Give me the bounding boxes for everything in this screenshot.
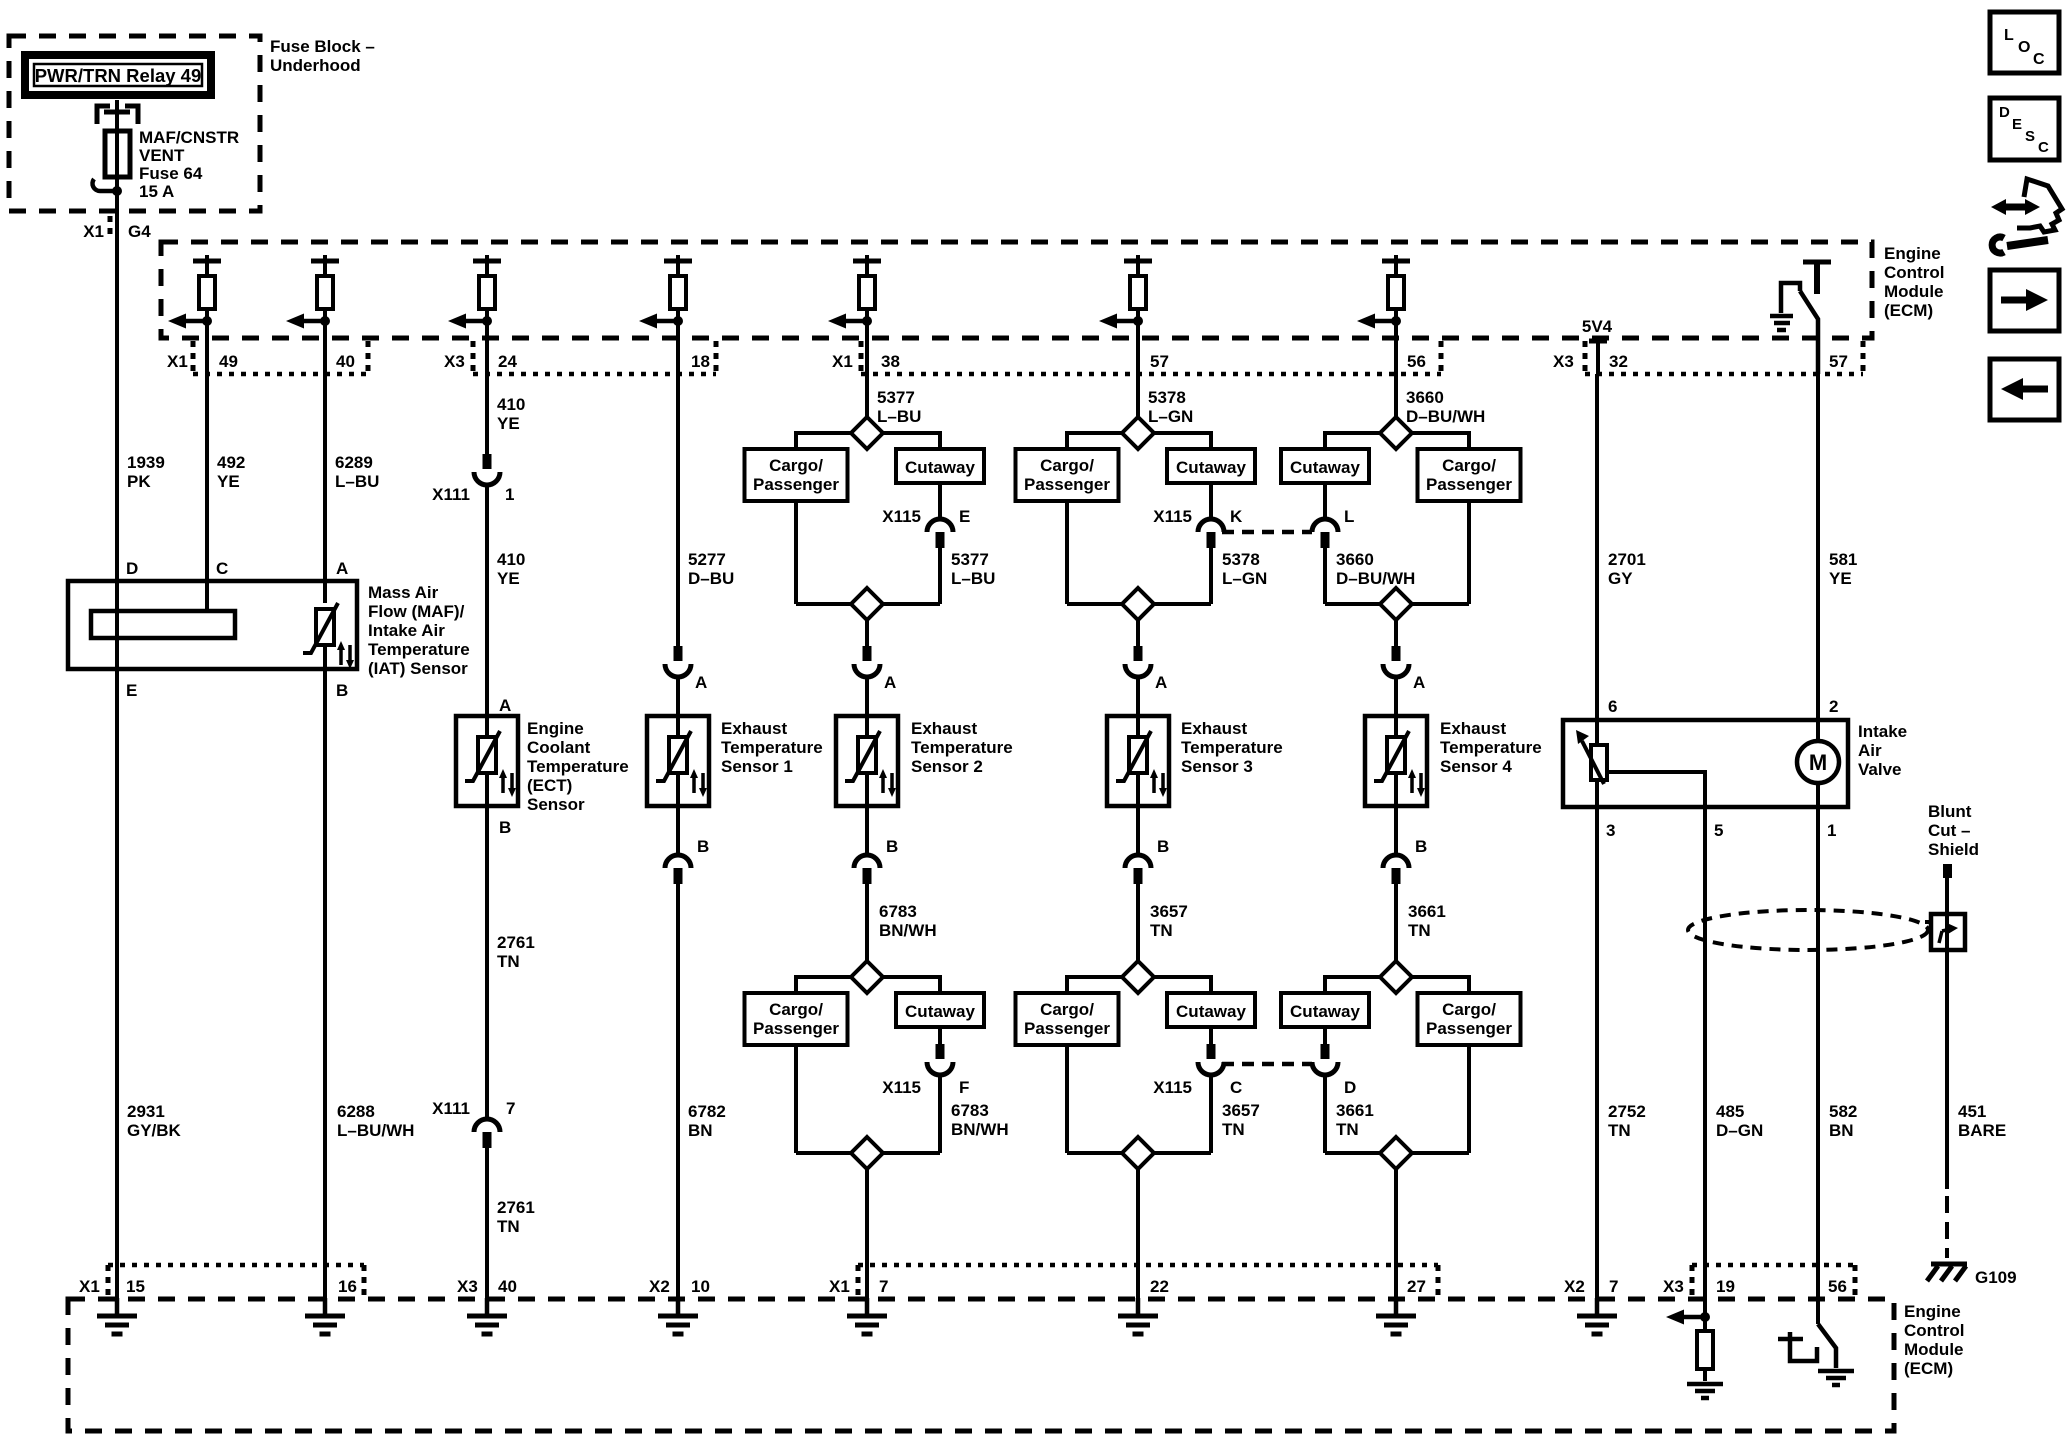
connector strip X3 32 57	[1553, 341, 1863, 374]
svg-text:7: 7	[879, 1277, 888, 1296]
svg-text:G4: G4	[128, 222, 151, 241]
splice diamond 5377 L-BU bottom	[796, 588, 940, 620]
svg-text:Temperature: Temperature	[527, 757, 629, 776]
svg-text:L–GN: L–GN	[1222, 569, 1267, 588]
svg-text:Cutaway: Cutaway	[1290, 1002, 1360, 1021]
wire 6288 L-BU/WH MAF B to ECM 16	[325, 669, 414, 1299]
wire 3657 TN sensor3 B down	[1138, 884, 1188, 961]
shield dashed ellipse	[1688, 910, 1928, 950]
svg-text:2: 2	[1829, 697, 1838, 716]
svg-text:581: 581	[1829, 550, 1857, 569]
wire to Cutaway branch	[1325, 977, 1380, 993]
ground ECM pin 16	[305, 1298, 345, 1334]
svg-text:Engine: Engine	[527, 719, 584, 738]
svg-text:X1: X1	[829, 1277, 850, 1296]
wire 6783 BN/WH below X115	[940, 1075, 1009, 1153]
svg-text:A: A	[884, 673, 896, 692]
svg-text:485: 485	[1716, 1102, 1744, 1121]
svg-text:Sensor 3: Sensor 3	[1181, 757, 1253, 776]
svg-text:Underhood: Underhood	[270, 56, 361, 75]
svg-text:BN: BN	[1829, 1121, 1854, 1140]
svg-text:L: L	[1344, 507, 1354, 526]
wire 3661 TN below X115	[1325, 1075, 1374, 1153]
svg-text:1: 1	[505, 485, 514, 504]
MAF/IAT sensor box	[68, 581, 357, 669]
connector sensor3 pin A	[1125, 646, 1167, 692]
box Cutaway	[1281, 449, 1369, 483]
wire to Cargo/Passenger branch	[1412, 433, 1469, 449]
svg-text:X111: X111	[432, 485, 470, 504]
svg-text:X115: X115	[882, 1078, 921, 1097]
svg-text:PWR/TRN Relay 49: PWR/TRN Relay 49	[35, 65, 202, 86]
blunt cut terminal bar	[1943, 864, 1952, 878]
svg-text:451: 451	[1958, 1102, 1986, 1121]
intake air valve box	[1563, 720, 1848, 807]
svg-text:Sensor 1: Sensor 1	[721, 757, 793, 776]
wire to Cargo/Passenger branch	[1412, 977, 1469, 993]
arrow ECM pin 24	[448, 314, 492, 329]
connector strip X1 15 16	[79, 1265, 364, 1299]
wire Cargo/Passenger branch down	[1467, 501, 1471, 604]
connector sensor4 pin B	[1383, 806, 1427, 884]
svg-text:Fuse Block –: Fuse Block –	[270, 37, 375, 56]
box Cargo/Passenger	[1016, 449, 1119, 501]
svg-text:Cutaway: Cutaway	[1290, 458, 1360, 477]
svg-text:X1: X1	[832, 352, 853, 371]
svg-text:TN: TN	[497, 1217, 520, 1236]
svg-text:Module: Module	[1884, 282, 1944, 301]
splice diamond 5378 L-GN top	[1122, 417, 1154, 449]
label Engine Control Module (ECM) bottom	[1904, 1302, 1964, 1378]
svg-text:K: K	[1230, 507, 1243, 526]
wire 3657 TN below X115	[1211, 1075, 1260, 1153]
wire Cargo/Passenger branch down	[794, 501, 798, 604]
svg-text:YE: YE	[497, 569, 520, 588]
svg-text:E: E	[126, 681, 137, 700]
svg-text:Passenger: Passenger	[753, 1019, 839, 1038]
svg-text:38: 38	[881, 352, 900, 371]
wire 3661 TN sensor4 B down	[1396, 884, 1446, 961]
wire 451 BARE upper	[1945, 878, 1949, 1189]
svg-text:5377: 5377	[951, 550, 989, 569]
splice diamond 3660 D-BU/WH bottom	[1325, 588, 1469, 620]
label Exhaust Temperature Sensor 4	[1440, 719, 1542, 776]
icon right arrow box	[1990, 270, 2059, 331]
svg-text:TN: TN	[497, 952, 520, 971]
svg-text:D–BU/WH: D–BU/WH	[1336, 569, 1415, 588]
connector X1 pin G4 labels	[83, 216, 151, 241]
svg-text:X115: X115	[1153, 507, 1192, 526]
svg-text:Passenger: Passenger	[1426, 475, 1512, 494]
exhaust/coolant temperature sensor 4 box	[1365, 716, 1427, 806]
svg-text:3661: 3661	[1336, 1101, 1374, 1120]
svg-text:5V4: 5V4	[1582, 317, 1613, 336]
connector sensor3 pin B	[1125, 806, 1169, 884]
svg-text:Temperature: Temperature	[368, 640, 470, 659]
svg-text:X1: X1	[167, 352, 188, 371]
wire 5378 L-GN pin 57	[1138, 374, 1193, 426]
relay PWR/TRN Relay 49	[25, 55, 211, 95]
splice diamond 6783 BN/WH top	[851, 961, 883, 993]
svg-text:Passenger: Passenger	[1426, 1019, 1512, 1038]
arrow ECM pin 38	[828, 314, 872, 329]
svg-text:16: 16	[338, 1277, 357, 1296]
svg-text:3: 3	[1606, 821, 1615, 840]
svg-text:2761: 2761	[497, 1198, 535, 1217]
svg-text:X3: X3	[457, 1277, 478, 1296]
wire to Cutaway branch	[883, 977, 940, 993]
svg-text:2931: 2931	[127, 1102, 165, 1121]
switch ECM pin 56 internal	[1778, 1324, 1836, 1368]
svg-text:49: 49	[219, 352, 238, 371]
wire fuse to X1 G4 exit	[115, 177, 119, 211]
wire to Cargo/Passenger branch	[796, 977, 851, 993]
svg-text:L–GN: L–GN	[1148, 407, 1193, 426]
svg-text:TN: TN	[1336, 1120, 1359, 1139]
resistor ECM pin 40	[311, 255, 339, 374]
splice diamond 3657 TN bottom	[1067, 1137, 1211, 1169]
ground ECM pin 7	[847, 1298, 887, 1334]
label Engine Control Module (ECM) top	[1884, 244, 1944, 320]
wire to Cargo/Passenger branch	[796, 433, 851, 449]
svg-text:3657: 3657	[1150, 902, 1188, 921]
splice diamond 6783 BN/WH bottom	[796, 1137, 940, 1169]
svg-text:6: 6	[1608, 697, 1617, 716]
svg-text:6783: 6783	[951, 1101, 989, 1120]
svg-text:Temperature: Temperature	[911, 738, 1013, 757]
connector sensor2 pin A	[854, 646, 896, 692]
svg-text:Cargo/: Cargo/	[1040, 456, 1094, 475]
svg-text:B: B	[697, 837, 709, 856]
svg-text:Cutaway: Cutaway	[905, 458, 975, 477]
ground ECM pin 10	[658, 1298, 698, 1334]
svg-text:YE: YE	[217, 472, 240, 491]
svg-text:D: D	[1344, 1078, 1356, 1097]
arrow ECM pin 18	[639, 314, 683, 329]
icon DESC box	[1990, 98, 2059, 160]
splice diamond 3657 TN top	[1122, 961, 1154, 993]
wire 5377 L-BU pin 38	[867, 374, 921, 426]
svg-text:Cut –: Cut –	[1928, 821, 1971, 840]
svg-text:Fuse 64: Fuse 64	[139, 164, 203, 183]
wire to Cutaway branch	[1154, 977, 1211, 993]
arrow ECM pin 49	[168, 314, 212, 329]
svg-text:A: A	[1155, 673, 1167, 692]
ground ECM pin 57 internal	[1770, 316, 1793, 330]
node 5V4 ECM pin 32	[1582, 317, 1613, 374]
svg-text:3661: 3661	[1408, 902, 1446, 921]
connector sensor1 pin A	[665, 646, 707, 692]
svg-text:L–BU: L–BU	[951, 569, 995, 588]
svg-text:B: B	[1157, 837, 1169, 856]
svg-text:X3: X3	[1663, 1277, 1684, 1296]
svg-text:Passenger: Passenger	[1024, 1019, 1110, 1038]
ground ECM pin 22	[1118, 1298, 1158, 1334]
svg-text:Passenger: Passenger	[1024, 475, 1110, 494]
switch ECM pin 57 driver	[1781, 262, 1831, 374]
splice diamond 3660 D-BU/WH top	[1380, 417, 1412, 449]
svg-text:410: 410	[497, 395, 525, 414]
svg-text:410: 410	[497, 550, 525, 569]
svg-text:X1: X1	[83, 222, 104, 241]
svg-text:Sensor: Sensor	[527, 795, 585, 814]
splice diamond 3661 TN bottom	[1325, 1137, 1469, 1169]
svg-text:L–BU: L–BU	[877, 407, 921, 426]
svg-text:24: 24	[498, 352, 517, 371]
svg-text:B: B	[499, 818, 511, 837]
ground ECM pin 27	[1376, 1298, 1416, 1334]
svg-text:10: 10	[691, 1277, 710, 1296]
svg-text:D–BU: D–BU	[688, 569, 734, 588]
connector label X2 10 bottom	[649, 1277, 710, 1296]
svg-text:15 A: 15 A	[139, 182, 174, 201]
wire 2752 TN valve 3 to ECM X2 7	[1597, 807, 1646, 1299]
connector X115 pin C	[1153, 1027, 1242, 1097]
svg-text:492: 492	[217, 453, 245, 472]
svg-text:Cutaway: Cutaway	[1176, 1002, 1246, 1021]
svg-text:(ECT): (ECT)	[527, 776, 572, 795]
wire 582 BN valve 1 to ECM 56	[1818, 807, 1857, 1324]
resistor ECM pin 24	[473, 255, 501, 374]
wire 2761 TN X111 to ECM X3 40	[487, 1148, 535, 1299]
svg-text:18: 18	[691, 352, 710, 371]
svg-text:Exhaust: Exhaust	[721, 719, 787, 738]
svg-text:Cargo/: Cargo/	[1442, 456, 1496, 475]
dashed link X115 C to D	[1222, 1062, 1312, 1067]
connector X115 pin L	[1312, 483, 1354, 548]
svg-text:L–BU: L–BU	[335, 472, 379, 491]
svg-text:A: A	[336, 559, 348, 578]
svg-text:A: A	[499, 696, 511, 715]
wire sensor2 A drop	[865, 620, 869, 646]
svg-text:L: L	[2004, 27, 2014, 44]
label Exhaust Temperature Sensor 1	[721, 719, 823, 776]
svg-text:Cargo/: Cargo/	[1442, 1000, 1496, 1019]
ground ECM pin X2 7	[1577, 1298, 1617, 1334]
svg-text:B: B	[886, 837, 898, 856]
wire 410 YE pin 24 to X111	[487, 374, 525, 454]
svg-text:B: B	[336, 681, 348, 700]
connector strip X3 24 18	[444, 341, 716, 374]
svg-text:27: 27	[1407, 1277, 1426, 1296]
svg-text:TN: TN	[1222, 1120, 1245, 1139]
wire 485 D-GN valve 5 to ECM X3 19	[1705, 807, 1763, 1317]
label Intake Air Valve	[1858, 722, 1907, 779]
wire to Cutaway branch	[1325, 433, 1380, 449]
arrow ECM pin 19	[1666, 1310, 1710, 1325]
svg-text:X3: X3	[444, 352, 465, 371]
fuse label MAF/CNSTR VENT Fuse 64 15 A	[139, 128, 239, 201]
svg-text:5378: 5378	[1222, 550, 1260, 569]
svg-text:22: 22	[1150, 1277, 1169, 1296]
wire 2701 GY pin 32 to valve 6	[1597, 374, 1646, 720]
svg-text:E: E	[2012, 116, 2022, 133]
svg-text:X115: X115	[882, 507, 921, 526]
ground ECM pin 19 internal	[1687, 1384, 1723, 1398]
wire to Cargo/Passenger branch	[1067, 977, 1122, 993]
connector label X2 7 bottom	[1564, 1277, 1618, 1296]
svg-text:(IAT) Sensor: (IAT) Sensor	[368, 659, 468, 678]
svg-text:Cargo/: Cargo/	[769, 1000, 823, 1019]
svg-text:(ECM): (ECM)	[1884, 301, 1933, 320]
svg-text:TN: TN	[1408, 921, 1431, 940]
svg-text:YE: YE	[1829, 569, 1852, 588]
wire to Cargo/Passenger branch	[1067, 433, 1122, 449]
svg-text:D–BU/WH: D–BU/WH	[1406, 407, 1485, 426]
connector X111 pin 1	[432, 454, 514, 504]
splice diamond 3661 TN top	[1380, 961, 1412, 993]
exhaust/coolant temperature sensor 2 box	[836, 716, 898, 806]
connector strip X1 38 57 56	[832, 341, 1441, 374]
svg-text:C: C	[2038, 139, 2049, 156]
svg-text:56: 56	[1407, 352, 1426, 371]
exhaust/coolant temperature sensor 1 box	[647, 716, 709, 806]
svg-text:BARE: BARE	[1958, 1121, 2006, 1140]
connector strip X1 49 40	[167, 341, 368, 374]
svg-text:Control: Control	[1904, 1321, 1964, 1340]
wire 3660 D-BU/WH below X115	[1325, 548, 1415, 604]
valve pin labels 3 5 1	[1606, 821, 1836, 840]
svg-text:X2: X2	[649, 1277, 670, 1296]
svg-text:O: O	[2018, 39, 2030, 56]
svg-text:2752: 2752	[1608, 1102, 1646, 1121]
svg-text:B: B	[1415, 837, 1427, 856]
relay output terminal bracket	[97, 100, 138, 131]
svg-text:32: 32	[1609, 352, 1628, 371]
svg-text:1: 1	[1827, 821, 1836, 840]
box Cutaway	[1281, 993, 1369, 1027]
svg-text:Shield: Shield	[1928, 840, 1979, 859]
svg-text:YE: YE	[497, 414, 520, 433]
connector X115 pin E	[882, 483, 970, 548]
svg-text:D: D	[126, 559, 138, 578]
svg-text:Module: Module	[1904, 1340, 1964, 1359]
box Cargo/Passenger	[1016, 993, 1119, 1045]
svg-text:C: C	[2033, 51, 2045, 68]
svg-text:57: 57	[1829, 352, 1848, 371]
svg-text:BN: BN	[688, 1121, 713, 1140]
wire 492 YE pin 49 to MAF C	[207, 374, 245, 611]
box Cargo/Passenger	[1418, 993, 1521, 1045]
svg-text:6783: 6783	[879, 902, 917, 921]
svg-text:M: M	[1809, 750, 1827, 775]
connector strip X3 19 56	[1663, 1265, 1855, 1299]
shield box symbol	[1925, 914, 1965, 950]
arrow ECM pin 40	[286, 314, 330, 329]
ground ECM pin 56 internal	[1818, 1371, 1854, 1385]
wire 2931 GY/BK MAF E to ECM 15	[117, 669, 182, 1299]
splice diamond 5377 L-BU top	[851, 417, 883, 449]
connector sensor4 pin A	[1383, 646, 1425, 692]
svg-text:Intake: Intake	[1858, 722, 1907, 741]
svg-text:2701: 2701	[1608, 550, 1646, 569]
svg-text:57: 57	[1150, 352, 1169, 371]
MAF pin letters	[126, 559, 348, 700]
svg-text:56: 56	[1828, 1277, 1847, 1296]
wire 5378 L-GN below X115	[1211, 548, 1267, 604]
label Exhaust Temperature Sensor 2	[911, 719, 1013, 776]
wire Cargo/Passenger branch down	[1065, 501, 1069, 604]
label Engine Coolant Temperature (ECT) Sensor	[527, 719, 629, 814]
svg-text:5378: 5378	[1148, 388, 1186, 407]
svg-text:7: 7	[1609, 1277, 1618, 1296]
wire to Cutaway branch	[1154, 433, 1211, 449]
wire 451 BARE dashed to G109	[1945, 1196, 1949, 1258]
svg-text:C: C	[1230, 1078, 1242, 1097]
svg-text:Sensor 2: Sensor 2	[911, 757, 983, 776]
svg-text:Control: Control	[1884, 263, 1944, 282]
exhaust/coolant temperature sensor 3 box	[1107, 716, 1169, 806]
wire 410 YE X111 to ECT A	[487, 485, 525, 716]
wire sensor3 A drop	[1136, 620, 1140, 646]
wire 5277 D-BU pin 18 to sensor1 A	[678, 374, 734, 646]
wire 581 YE pin 57 to valve 2	[1818, 374, 1857, 720]
svg-text:Flow (MAF)/: Flow (MAF)/	[368, 602, 465, 621]
motor M inside valve	[1797, 720, 1839, 807]
relay output hook terminal	[93, 179, 122, 196]
svg-text:Blunt: Blunt	[1928, 802, 1972, 821]
arrow ECM pin 56	[1357, 314, 1401, 329]
svg-text:Passenger: Passenger	[753, 475, 839, 494]
ground G109	[1927, 1264, 2017, 1287]
connector strip X1 7 22 27	[829, 1265, 1438, 1299]
svg-text:2761: 2761	[497, 933, 535, 952]
wire Cargo/Passenger branch down	[794, 1045, 798, 1153]
wire Cargo/Passenger branch down	[1467, 1045, 1471, 1153]
arrow ECM pin 57	[1099, 314, 1143, 329]
svg-text:S: S	[2025, 128, 2035, 145]
box Cutaway	[896, 993, 984, 1027]
svg-text:Engine: Engine	[1904, 1302, 1961, 1321]
ground ECM pin 15	[97, 1298, 137, 1334]
wire 5377 L-BU below X115	[940, 548, 995, 604]
svg-text:TN: TN	[1150, 921, 1173, 940]
svg-text:19: 19	[1716, 1277, 1735, 1296]
svg-text:582: 582	[1829, 1102, 1857, 1121]
wire 6289 L-BU pin 40 to MAF A	[325, 374, 379, 581]
svg-text:Exhaust: Exhaust	[1181, 719, 1247, 738]
svg-text:Cutaway: Cutaway	[905, 1002, 975, 1021]
svg-text:D: D	[1999, 104, 2010, 121]
wire 2761 TN ECT B to X111 7	[487, 806, 535, 1119]
svg-text:Engine: Engine	[1884, 244, 1941, 263]
svg-text:PK: PK	[127, 472, 151, 491]
resistor ECM pin 49	[193, 255, 221, 374]
svg-text:6782: 6782	[688, 1102, 726, 1121]
box Cutaway	[1167, 449, 1255, 483]
wire sensor4 to ECM 27	[1394, 1169, 1398, 1299]
box Cutaway	[1167, 993, 1255, 1027]
svg-text:(ECM): (ECM)	[1904, 1359, 1953, 1378]
label Fuse Block Underhood	[270, 37, 375, 75]
wire 3660 D-BU/WH pin 56	[1396, 374, 1485, 426]
svg-text:Valve: Valve	[1858, 760, 1902, 779]
svg-text:Exhaust: Exhaust	[1440, 719, 1506, 738]
icon wrench/connector	[1991, 179, 2062, 253]
svg-text:7: 7	[506, 1099, 515, 1118]
svg-text:GY: GY	[1608, 569, 1633, 588]
svg-text:40: 40	[336, 352, 355, 371]
icon LOC box	[1990, 12, 2059, 73]
connector X111 pin 7	[432, 1099, 515, 1148]
label Mass Air Flow (MAF)/ Intake Air Temperature (IAT) Sensor	[368, 583, 470, 678]
svg-text:Mass Air: Mass Air	[368, 583, 439, 602]
svg-text:L–BU/WH: L–BU/WH	[337, 1121, 414, 1140]
svg-text:MAF/CNSTR: MAF/CNSTR	[139, 128, 239, 147]
connector X115 pin D	[1312, 1027, 1356, 1097]
svg-text:5: 5	[1714, 821, 1723, 840]
svg-text:TN: TN	[1608, 1121, 1631, 1140]
